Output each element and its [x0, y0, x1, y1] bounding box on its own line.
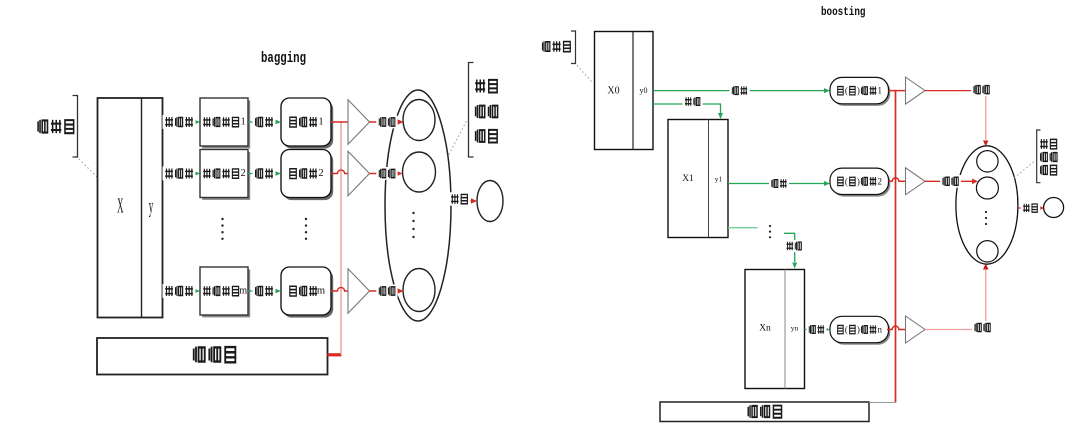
- label 子训练集1: [203, 117, 246, 128]
- bracket (left 训练集): [73, 96, 78, 158]
- circle result2 (left): [403, 152, 436, 192]
- svg-text:): ): [857, 325, 860, 335]
- callout dotted wire (right 训练集): [577, 66, 592, 83]
- circle result3 (left): [403, 269, 435, 312]
- dots 子训练集 column: [221, 218, 223, 240]
- box 基模型m: [281, 267, 333, 318]
- wire model2->triangle (right, hop): [889, 178, 906, 181]
- svg-text:y1: y1: [715, 175, 723, 184]
- label 子抽样 row3: [163, 284, 196, 298]
- bracket 综合预测结果 (right): [1037, 130, 1041, 183]
- svg-text:y: y: [149, 196, 154, 218]
- triangle predict row3: [348, 269, 370, 314]
- box 测试集 (right): [660, 402, 869, 422]
- svg-text:m: m: [239, 286, 247, 297]
- label 子训练集m: [203, 286, 247, 297]
- label 预测 row2 (left): [376, 167, 397, 180]
- wire 训练 row3: [248, 290, 278, 292]
- wire 预测 row1 (left): [370, 121, 400, 123]
- label 训练 row2 (right): [769, 177, 789, 189]
- label 训练 row2 (left): [253, 167, 276, 181]
- label 转化 row2: [784, 240, 804, 252]
- wire 训练 row2 (right): [728, 183, 827, 185]
- box 子训练集2: [200, 150, 250, 200]
- label 基（弱）模型2: [838, 176, 882, 186]
- label 训练 row1 (right): [730, 85, 750, 97]
- label 综合 (right): [1021, 202, 1041, 214]
- dots ellipse (right): [985, 211, 987, 225]
- circle result1 (left): [403, 100, 435, 141]
- svg-text:2: 2: [877, 176, 882, 186]
- label 训练集 (right): [543, 41, 571, 51]
- triangle predict row1: [348, 100, 370, 145]
- wire model->triangle row2 (hop): [331, 170, 348, 174]
- dots 基模型 column: [305, 218, 307, 240]
- circle final output (left): [477, 181, 503, 222]
- callout dotted wire (right result): [1014, 160, 1036, 178]
- label 基（弱）模型1: [838, 86, 882, 96]
- wire 转化 X0->X1: [653, 104, 721, 113]
- wire red vertical (left test-set bus): [340, 122, 342, 355]
- dots ellipse (left): [412, 212, 414, 238]
- label 综合预测结果 (right): [1040, 139, 1057, 175]
- triangle predict row3 (right): [906, 316, 926, 343]
- wire red vertical (right test-set bus): [895, 91, 897, 403]
- rect X1|y1: [668, 120, 728, 238]
- bracket 综合预测结果 (left): [469, 63, 474, 158]
- label 综合预测结果 (left): [475, 80, 497, 143]
- wire 子抽样 row3: [163, 290, 198, 292]
- callout dotted wire (left 训练集): [79, 159, 97, 177]
- wire 预测 row1 (right): [925, 90, 986, 92]
- svg-text:1: 1: [877, 86, 882, 96]
- wire 测试集 thick red stub: [328, 353, 342, 356]
- wire 预测 row3 (right): [925, 270, 986, 330]
- box 子训练集1: [200, 98, 250, 148]
- circle final output (right): [1044, 198, 1064, 218]
- callout dotted wire (left result): [447, 121, 467, 158]
- box 基（弱）模型n: [830, 316, 890, 345]
- wire 转化 ...->Xn: [784, 233, 795, 262]
- wire 预测 row2 (right): [925, 180, 973, 182]
- circle result2 (right): [976, 177, 998, 199]
- svg-text:(: (: [845, 176, 848, 186]
- wire 预测 row2 (left): [370, 173, 399, 175]
- label 预测 row3 (left): [376, 285, 397, 298]
- svg-text:(: (: [845, 86, 848, 96]
- ellipse ensemble (right): [956, 146, 1018, 264]
- svg-text:bagging: bagging: [261, 51, 306, 67]
- svg-text:yn: yn: [791, 324, 799, 333]
- box 基模型2: [281, 150, 333, 201]
- label 预测 row1 (right): [971, 83, 992, 96]
- label 基模型m: [290, 286, 326, 297]
- circle result3 (right): [977, 241, 998, 262]
- wire 子抽样 row2: [163, 173, 198, 175]
- svg-text:X0: X0: [607, 86, 619, 97]
- wire 训练 row1: [248, 121, 278, 123]
- wire 训练 row3 (right): [805, 329, 827, 331]
- wire 测试集->bus (right): [869, 402, 896, 404]
- label 训练 row3 (right): [807, 323, 827, 335]
- label 综合 (left): [448, 192, 470, 205]
- label 预测 row1 (left): [376, 116, 397, 129]
- wire 综合 (right): [1018, 207, 1040, 209]
- triangle predict row1 (right): [906, 77, 926, 104]
- triangle predict row2: [348, 151, 370, 196]
- label 子训练集2: [203, 168, 246, 179]
- label 训练集 (left): [38, 120, 74, 133]
- svg-text:Xn: Xn: [759, 324, 771, 334]
- box 测试集 (left): [97, 338, 328, 375]
- svg-text:m: m: [317, 286, 326, 297]
- label 测试集 (left): [194, 347, 236, 363]
- label 预测 row2 (right): [940, 175, 961, 188]
- circle result1 (right): [977, 151, 998, 172]
- box 子训练集m: [200, 267, 250, 317]
- label 转化 row1: [683, 95, 703, 107]
- wire 转化 X1->... stub: [728, 227, 758, 229]
- svg-text:2: 2: [241, 168, 246, 179]
- dots 转化 chain: [769, 225, 771, 238]
- wire 训练 row2: [248, 173, 278, 175]
- svg-text:n: n: [877, 325, 882, 335]
- svg-text:1: 1: [241, 117, 246, 128]
- label 基模型2: [290, 168, 324, 179]
- svg-text:X: X: [117, 196, 124, 218]
- svg-text:): ): [857, 86, 860, 96]
- wire 子抽样 row1: [163, 121, 198, 123]
- label 预测 row3 (right): [972, 321, 993, 334]
- wire 综合 (left): [451, 200, 473, 202]
- wire model1->triangle (right): [889, 90, 906, 92]
- rect X0|y0: [595, 32, 654, 150]
- bracket (right 训练集): [571, 31, 576, 64]
- label 基模型1: [290, 117, 324, 128]
- label 基（弱）模型n: [838, 325, 883, 335]
- label 训练 row1 (left): [253, 115, 276, 129]
- label 子抽样 row1: [163, 115, 196, 129]
- svg-text:X1: X1: [682, 174, 694, 184]
- box 基模型1: [281, 98, 333, 149]
- wire model->triangle row1: [331, 121, 348, 123]
- wire 训练 row1 (right): [653, 90, 827, 92]
- rect X|y training data: [98, 98, 163, 318]
- box 基（弱）模型2: [830, 168, 890, 196]
- triangle predict row2 (right): [906, 168, 926, 195]
- wire model3->triangle (right, hop): [887, 326, 906, 329]
- label 训练 row3 (left): [253, 284, 276, 298]
- svg-text:(: (: [845, 325, 848, 335]
- label 子抽样 row2: [163, 167, 196, 181]
- wire 预测 row3 (left): [370, 290, 400, 292]
- ellipse ensemble (left): [385, 90, 451, 321]
- wire model->triangle row3 (hop): [331, 287, 348, 291]
- svg-text:y0: y0: [640, 86, 648, 95]
- label 测试集 (right): [748, 405, 781, 418]
- svg-text:): ): [857, 176, 860, 186]
- svg-text:boosting: boosting: [821, 6, 866, 19]
- svg-text:1: 1: [318, 117, 323, 128]
- box 基（弱）模型1: [830, 77, 890, 106]
- rect Xn|yn: [745, 270, 805, 389]
- svg-text:2: 2: [318, 168, 323, 179]
